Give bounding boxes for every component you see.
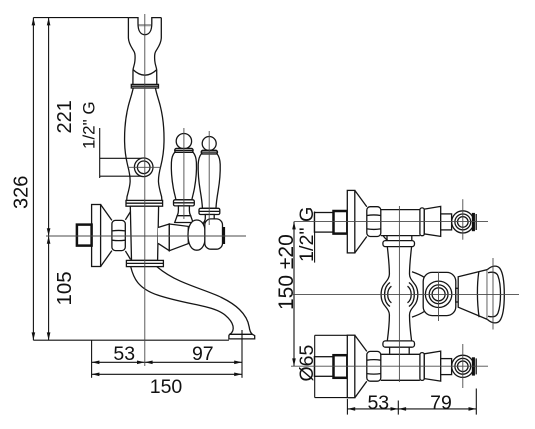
svg-text:150: 150 — [150, 376, 183, 398]
svg-text:221: 221 — [54, 100, 76, 133]
svg-text:326: 326 — [11, 176, 33, 209]
svg-text:105: 105 — [53, 271, 76, 305]
svg-text:97: 97 — [192, 343, 214, 365]
svg-text:1/2" G: 1/2" G — [296, 207, 318, 262]
svg-text:Ø65: Ø65 — [296, 344, 318, 381]
svg-text:53: 53 — [113, 343, 135, 365]
svg-text:53: 53 — [367, 392, 389, 414]
svg-text:79: 79 — [430, 392, 452, 414]
svg-text:150 ±20: 150 ±20 — [275, 234, 298, 310]
svg-text:1/2" G: 1/2" G — [80, 101, 99, 149]
